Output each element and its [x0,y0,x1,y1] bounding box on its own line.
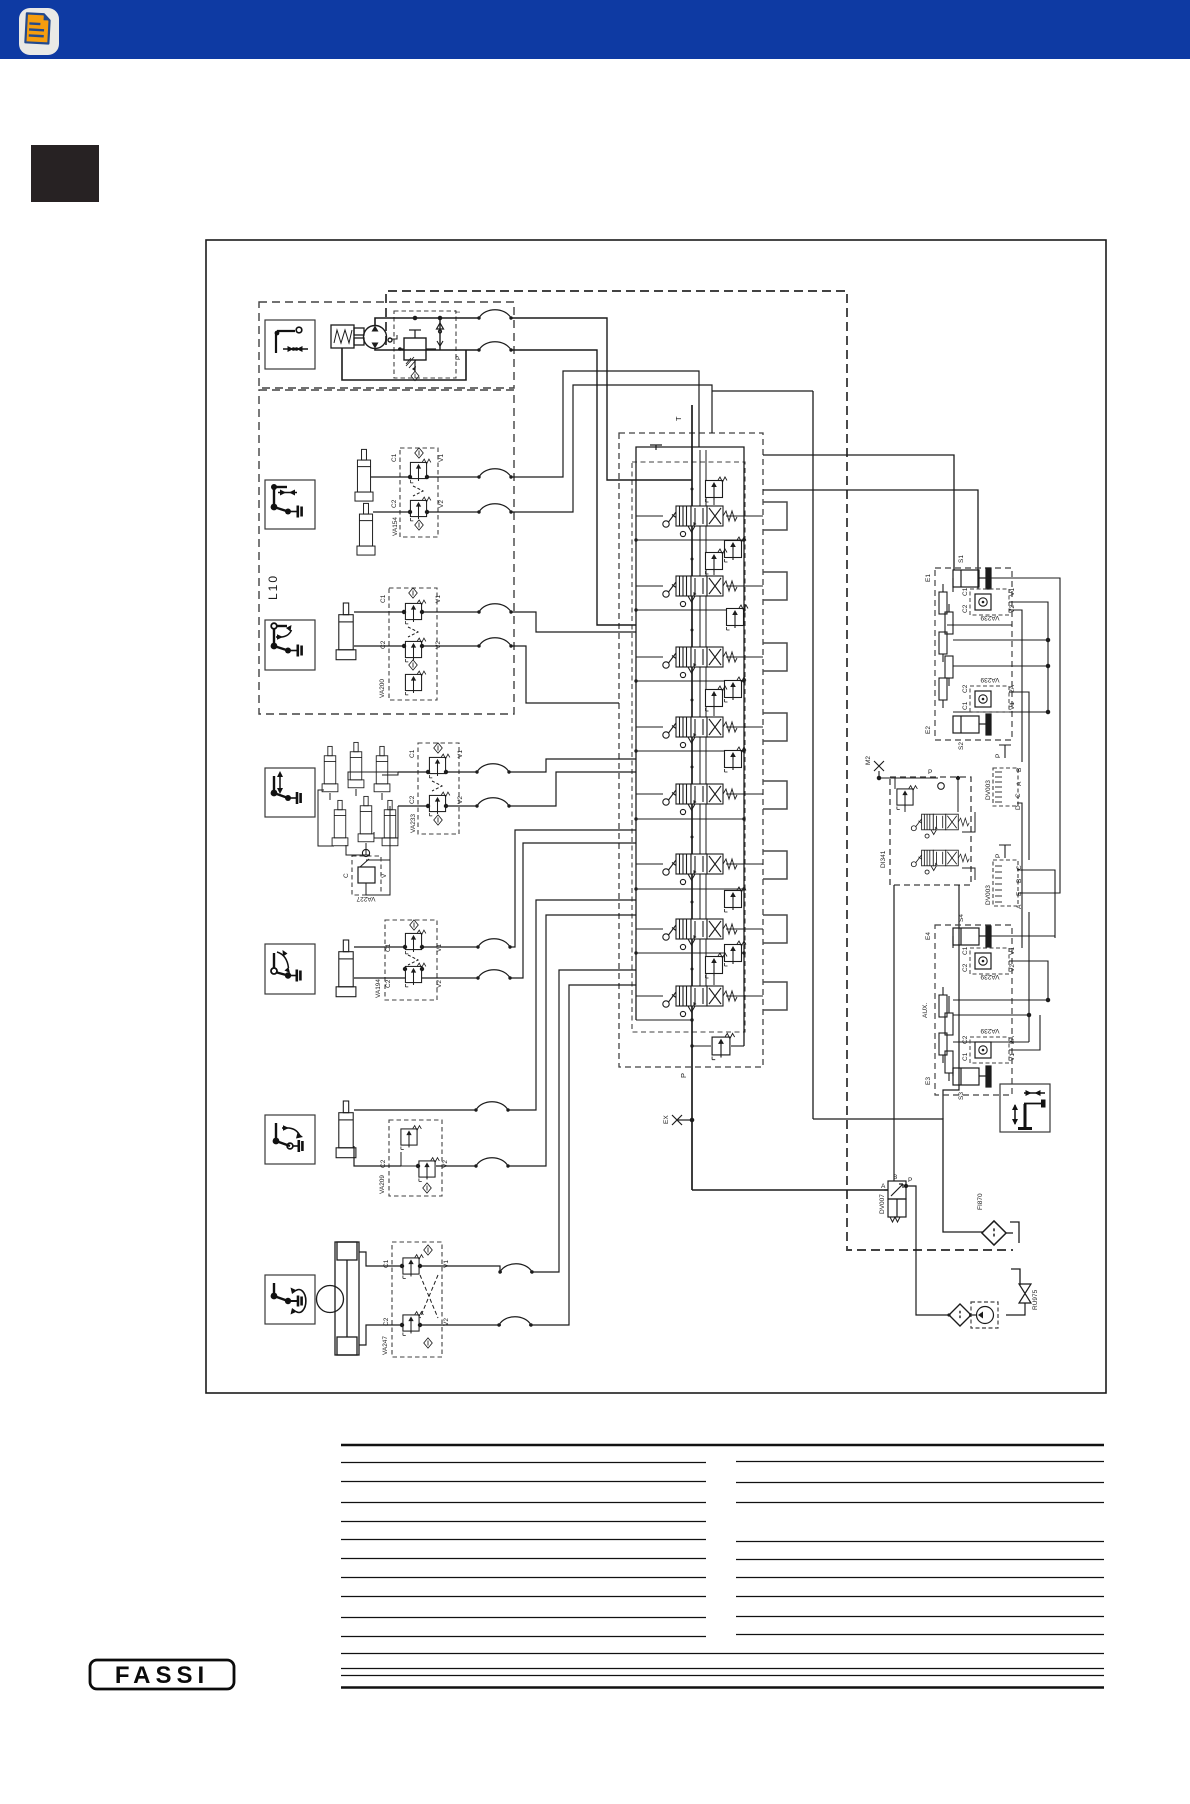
svg-text:B: B [1016,768,1023,772]
directional spool valve [663,506,737,537]
directional spool valve [663,919,737,950]
relief R2a [725,537,747,562]
relief valve [410,459,430,483]
svg-text:VA200: VA200 [379,679,386,698]
flexible hose coupling [477,342,512,352]
VA233 dashed box [418,743,459,834]
svg-text:C2: C2 [962,963,969,972]
svg-text:DI341: DI341 [880,850,887,868]
suction pump [971,1302,998,1328]
svg-text:V1: V1 [1009,588,1016,596]
svg-text:DV007: DV007 [879,1194,886,1214]
pump section dashed box [259,302,514,388]
svg-text:P: P [995,854,1002,858]
svg-text:V1: V1 [1009,947,1016,955]
wire bank to VA239 C1 [763,490,978,589]
DI341 gauge port [938,783,945,790]
relief R5 [725,747,747,772]
svg-text:T: T [455,310,462,314]
svg-text:C2: C2 [385,979,392,988]
DI341 spool 2 [911,850,969,874]
right trunk line [812,391,814,1119]
VA247 internals [424,1245,433,1255]
svg-text:C2: C2 [380,1159,387,1168]
relief valve [405,671,425,695]
svg-text:EX: EX [663,1115,670,1124]
svg-text:RU975: RU975 [1032,1289,1039,1310]
svg-text:C2: C2 [962,604,969,613]
cylinder row3 [336,603,356,660]
icon box 4 [265,768,315,817]
svg-text:VA209: VA209 [379,1175,386,1194]
coupling brackets [1006,1222,1020,1285]
document icon [19,8,59,55]
svg-text:V2: V2 [442,1160,449,1168]
svg-text:P: P [455,356,462,360]
VA239 no.3 [962,946,1016,980]
svg-text:VA247: VA247 [382,1336,389,1355]
DI341 internal wires [895,776,975,880]
relief R3 [727,605,749,630]
cylinder S4 [953,926,991,947]
cylinder [332,800,348,845]
VA209 dashed box [389,1120,442,1196]
svg-text:C2: C2 [962,1035,969,1044]
row6 wires [354,900,636,1168]
VA194 dashed box [385,920,437,1000]
wire to FI870 column [813,1119,983,1232]
check valve diamond [434,815,443,825]
svg-text:VA239: VA239 [980,676,999,683]
flexible hose coupling [477,469,512,479]
pump relief sub dashed box [394,311,456,378]
svg-text:S1: S1 [958,555,965,563]
DI341 relief valve [897,786,917,810]
relief R4a [725,677,747,702]
check valve diamond [424,1338,433,1348]
cylinder C2 row2 [357,503,375,555]
relief valve [419,1158,439,1182]
FASSI logo [90,1660,234,1689]
svg-text:C1: C1 [380,594,387,603]
flexible hose coupling [474,1158,509,1168]
check valve on T branch [413,316,443,350]
svg-text:V: V [381,873,388,878]
cylinder [322,746,338,791]
svg-text:P: P [679,1073,688,1078]
check valve diamond [415,520,424,530]
icon box 7 [265,1275,315,1324]
VA194 internals [410,920,419,930]
svg-text:E2: E2 [925,726,932,734]
main schematic frame [206,240,1106,1393]
VA154 dashed box [400,448,438,537]
check valve diamond [409,660,418,670]
VA233 internals [434,743,443,753]
directional spool valve [663,986,737,1017]
svg-text:E1: E1 [925,574,932,582]
row5 wires [354,830,636,978]
svg-text:P: P [995,754,1002,758]
relief valve [410,497,430,521]
relief valve [405,930,425,954]
svg-text:C2: C2 [409,795,416,804]
icon box 6 [265,1115,315,1164]
svg-text:C2: C2 [380,640,387,649]
cylinder row5 [336,940,356,997]
bank pilot gallery lines [700,450,706,990]
svg-text:V1: V1 [436,944,443,952]
cylinder S2 [953,714,991,735]
svg-text:C: C [1015,793,1022,798]
svg-text:L10: L10 [266,574,280,600]
telescopic section cylinders E1 [939,584,953,708]
svg-text:AUX.: AUX. [922,1003,929,1018]
spool section 7 [634,887,763,955]
pictogram 6 : extension [273,1123,303,1152]
DV003 interconnect wires [1017,803,1055,1042]
svg-text:D: D [1015,805,1022,810]
icon box 8 [1000,1084,1050,1132]
svg-text:VA239: VA239 [980,614,999,621]
bank right rail [743,470,745,1046]
spool section 4 [634,677,763,753]
VA200 internals [409,588,418,598]
suction filter [949,1304,971,1326]
winch motor body [317,1242,360,1355]
svg-text:V2: V2 [438,500,445,508]
svg-text:VA154: VA154 [392,517,399,536]
flexible hose coupling [498,1264,533,1274]
svg-text:V2: V2 [457,796,464,804]
svg-text:V1: V1 [443,1260,450,1268]
stabilizer cylinder group [322,742,398,845]
relief R7 [725,887,747,912]
svg-text:C1: C1 [409,749,416,758]
spool section 8 [636,941,763,1017]
svg-text:A: A [1016,781,1023,786]
VA247 dashed box [392,1242,442,1357]
VA239 no.4 [962,1027,1016,1063]
VA239 no.1 [962,587,1016,621]
svg-text:B: B [893,1174,897,1181]
VA239 no.2 [962,676,1016,712]
svg-text:V2: V2 [1009,964,1016,972]
valve bank outer dashed box [619,433,763,1067]
directional spool valve [663,717,737,748]
icon box 5 [265,944,315,994]
relief valve [405,600,425,624]
svg-text:DV003: DV003 [985,885,992,905]
svg-text:C1: C1 [391,453,398,462]
flexible hose coupling [477,638,512,648]
valve bank inner dashed box [632,462,745,1032]
relief R8a [725,941,747,966]
pictogram 4 : lift vertical [271,771,301,804]
pictogram 7 : winch [271,1283,306,1315]
flexible hose coupling [474,1102,509,1112]
svg-text:VA239: VA239 [980,973,999,980]
L10 section dashed box [259,390,514,714]
row4 wires [398,759,636,808]
check valve diamond [411,371,419,381]
svg-text:V2: V2 [1009,605,1016,613]
svg-text:VA239: VA239 [980,1027,999,1034]
table top rule [341,1444,1104,1447]
flexible hose coupling [497,1317,532,1327]
RU975 shut-off valve [1006,1284,1031,1315]
right column rules [736,1461,1104,1463]
wire bank to E1 rod [763,455,954,570]
big control-assembly dashed boundary [386,291,1013,1250]
svg-text:P: P [908,1177,912,1184]
E1-E2 dashed box [935,568,1012,740]
svg-text:FASSI: FASSI [115,1662,209,1689]
pictogram 1 : PTO / pump engage [275,327,308,353]
bank bottom relief valve [636,1018,744,1059]
row2 wires [371,371,712,514]
svg-text:C1: C1 [962,946,969,955]
directional spool valve [663,576,737,607]
prime mover spring box [331,325,364,348]
relief valve [429,792,449,816]
flexible hose coupling [475,798,510,808]
cylinder [382,800,398,845]
svg-text:E3: E3 [925,1077,932,1085]
pictogram 5 : 2nd boom luffing [271,950,300,982]
cylinder [348,742,364,787]
svg-text:C1: C1 [385,943,392,952]
svg-text:V1: V1 [457,750,464,758]
directional spool valve [663,854,737,885]
svg-text:2A: 2A [1009,684,1016,693]
relief valve [429,754,449,778]
icon box 2 [265,480,315,529]
svg-text:DV003: DV003 [985,780,992,800]
svg-text:V1: V1 [1009,1053,1016,1061]
relief valve [403,1255,423,1279]
footer rules [341,1653,1104,1655]
DI341 outputs [894,885,959,1181]
relief valve [405,963,425,987]
svg-text:S3: S3 [958,1092,965,1100]
flexible hose coupling [477,504,512,514]
relief valve [403,1312,423,1336]
pictogram 2 : 1st boom raise [271,484,302,518]
svg-text:C1: C1 [962,587,969,596]
left column rules [341,1462,706,1464]
relief R8b [706,953,728,978]
svg-text:VA227: VA227 [356,895,375,902]
svg-text:V1: V1 [1009,702,1016,710]
svg-text:C1: C1 [962,1052,969,1061]
bank top bar [636,447,744,470]
check valve diamond [423,1183,432,1193]
icon box 1 [265,320,315,369]
spool section 6 [634,854,763,891]
svg-text:S4: S4 [958,914,965,922]
relief valve [712,1033,735,1059]
svg-text:T: T [674,416,683,421]
row3 wires [354,610,636,703]
DI341 dashed box [890,777,971,885]
FI870 return filter [982,1221,1006,1245]
spool section 5 [634,747,763,821]
wire bank top to right rail [712,390,813,392]
directional spool valve [663,647,737,678]
flexible hose coupling [476,970,511,980]
E1/E2 connecting wires [947,578,1060,893]
row7 wires [359,970,636,1345]
svg-text:V1: V1 [438,454,445,462]
svg-text:E4: E4 [925,932,932,940]
VA209 internals [401,1126,421,1150]
pictogram 3 : rotation [271,623,302,656]
spool section 1 [634,477,763,542]
svg-text:C1: C1 [962,701,969,710]
directional spool valve [663,784,737,815]
hoses on pump lines [477,310,512,320]
relief valve [405,638,425,662]
svg-text:VA194: VA194 [375,979,382,998]
svg-text:A: A [881,1183,886,1190]
cylinder S1 [953,568,991,589]
cylinder row6 [336,1101,356,1158]
svg-text:C: C [343,873,350,878]
svg-text:C2: C2 [391,499,398,508]
spool section 2 [634,537,763,612]
pump suction/return loop [342,318,478,380]
svg-text:2A: 2A [1009,1035,1016,1044]
cylinder S3 [953,1066,991,1087]
relief R2b [706,549,728,574]
E4/E3 wires [953,936,1055,1076]
flexible hose coupling [476,939,511,949]
aux section cylinders [939,987,953,1081]
svg-text:FI870: FI870 [977,1193,984,1210]
icon box 3 [265,620,315,670]
outlet tabs [763,502,787,1010]
svg-text:V2: V2 [435,641,442,649]
relief R1 [706,477,728,502]
black box [31,145,99,202]
flexible hose coupling [475,764,510,774]
svg-text:V2: V2 [436,980,443,988]
T stub [650,445,662,450]
svg-text:VA233: VA233 [410,814,417,833]
flexible hose coupling [477,604,512,614]
svg-text:C1: C1 [383,1259,390,1268]
cylinder [374,746,390,791]
cylinder interconnect wires row4 [318,772,398,860]
svg-text:M2: M2 [865,756,872,765]
svg-text:V1: V1 [435,595,442,603]
VA227 internals [362,849,369,856]
bank left rail [635,470,637,1020]
VA227 dashed box [352,856,381,895]
M2 test point [874,761,938,780]
T line to bank [511,318,692,625]
pictogram 8 [1012,1090,1046,1129]
VA200 dashed box [389,588,437,700]
cylinder C1 row2 [355,449,373,501]
svg-text:P: P [928,769,932,776]
EX port [672,1115,694,1125]
P line from bank to DV007 [692,1189,888,1191]
cylinder [358,796,374,841]
main relief valve in pump box [398,330,436,381]
pump circle [364,326,398,349]
relief R4b [706,686,728,711]
main trunk line [691,405,693,1190]
VA154 internals [415,448,424,458]
svg-text:S2: S2 [958,742,965,750]
DI341 spool 1 [911,814,969,838]
svg-text:C2: C2 [962,684,969,693]
E4-E3 dashed box [935,925,1012,1095]
spool section 3 [634,605,763,683]
